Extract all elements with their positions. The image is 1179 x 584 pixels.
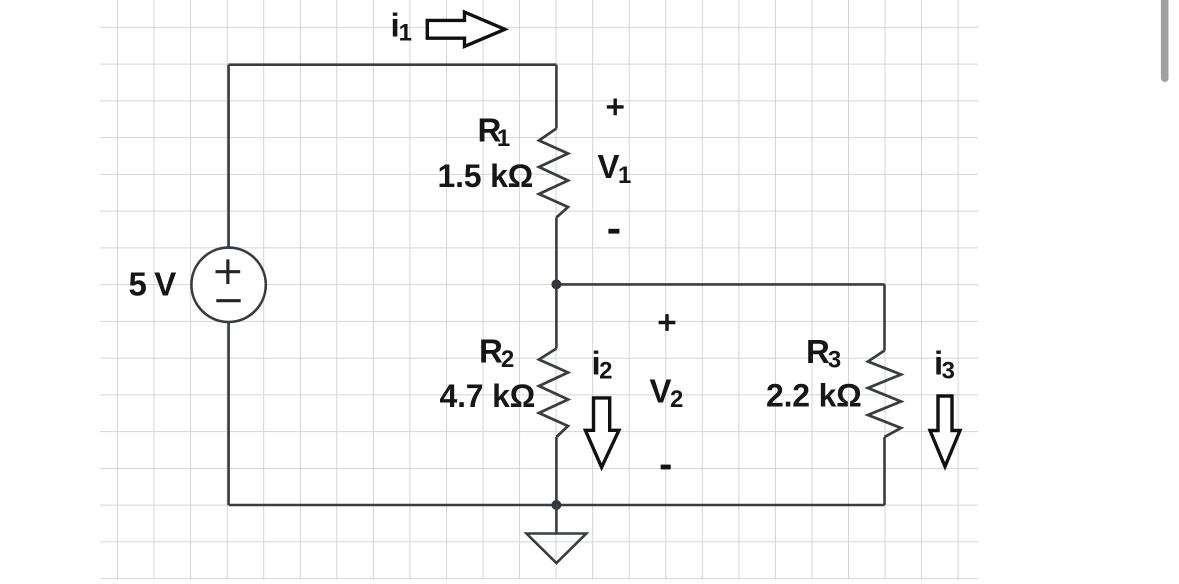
current arrow i1 (427, 12, 505, 46)
voltage source V 5V (191, 248, 265, 322)
ground (527, 505, 587, 563)
label V1 minus (608, 229, 619, 234)
svg-text:1.5 kΩ: 1.5 kΩ (438, 158, 534, 194)
wire R2 branch (555, 284, 558, 505)
label V1 plus (607, 99, 624, 116)
scrollbar (1161, 0, 1169, 82)
current arrow i3 (930, 396, 960, 467)
resistor R3 (868, 351, 901, 438)
wire left: top corner down to source, source to bottom (227, 65, 230, 505)
current arrow i2 (585, 398, 619, 467)
wire right vertical (R3 branch) (883, 284, 886, 505)
label V2 plus (659, 314, 676, 331)
wire top: source to R1 top (229, 63, 557, 66)
wire bottom (229, 504, 885, 507)
svg-text:2.2 kΩ: 2.2 kΩ (766, 378, 862, 414)
svg-text:5 V: 5 V (129, 265, 177, 302)
node A junction dot (551, 279, 561, 289)
resistor R1 (539, 129, 568, 218)
node B junction dot (bottom) (551, 500, 561, 510)
wire node to R3 branch (556, 283, 884, 286)
wire middle vertical (R1 branch) (555, 65, 558, 285)
resistor R2 (539, 349, 568, 438)
svg-text:4.7 kΩ: 4.7 kΩ (440, 378, 536, 414)
label V2 minus (661, 465, 671, 470)
